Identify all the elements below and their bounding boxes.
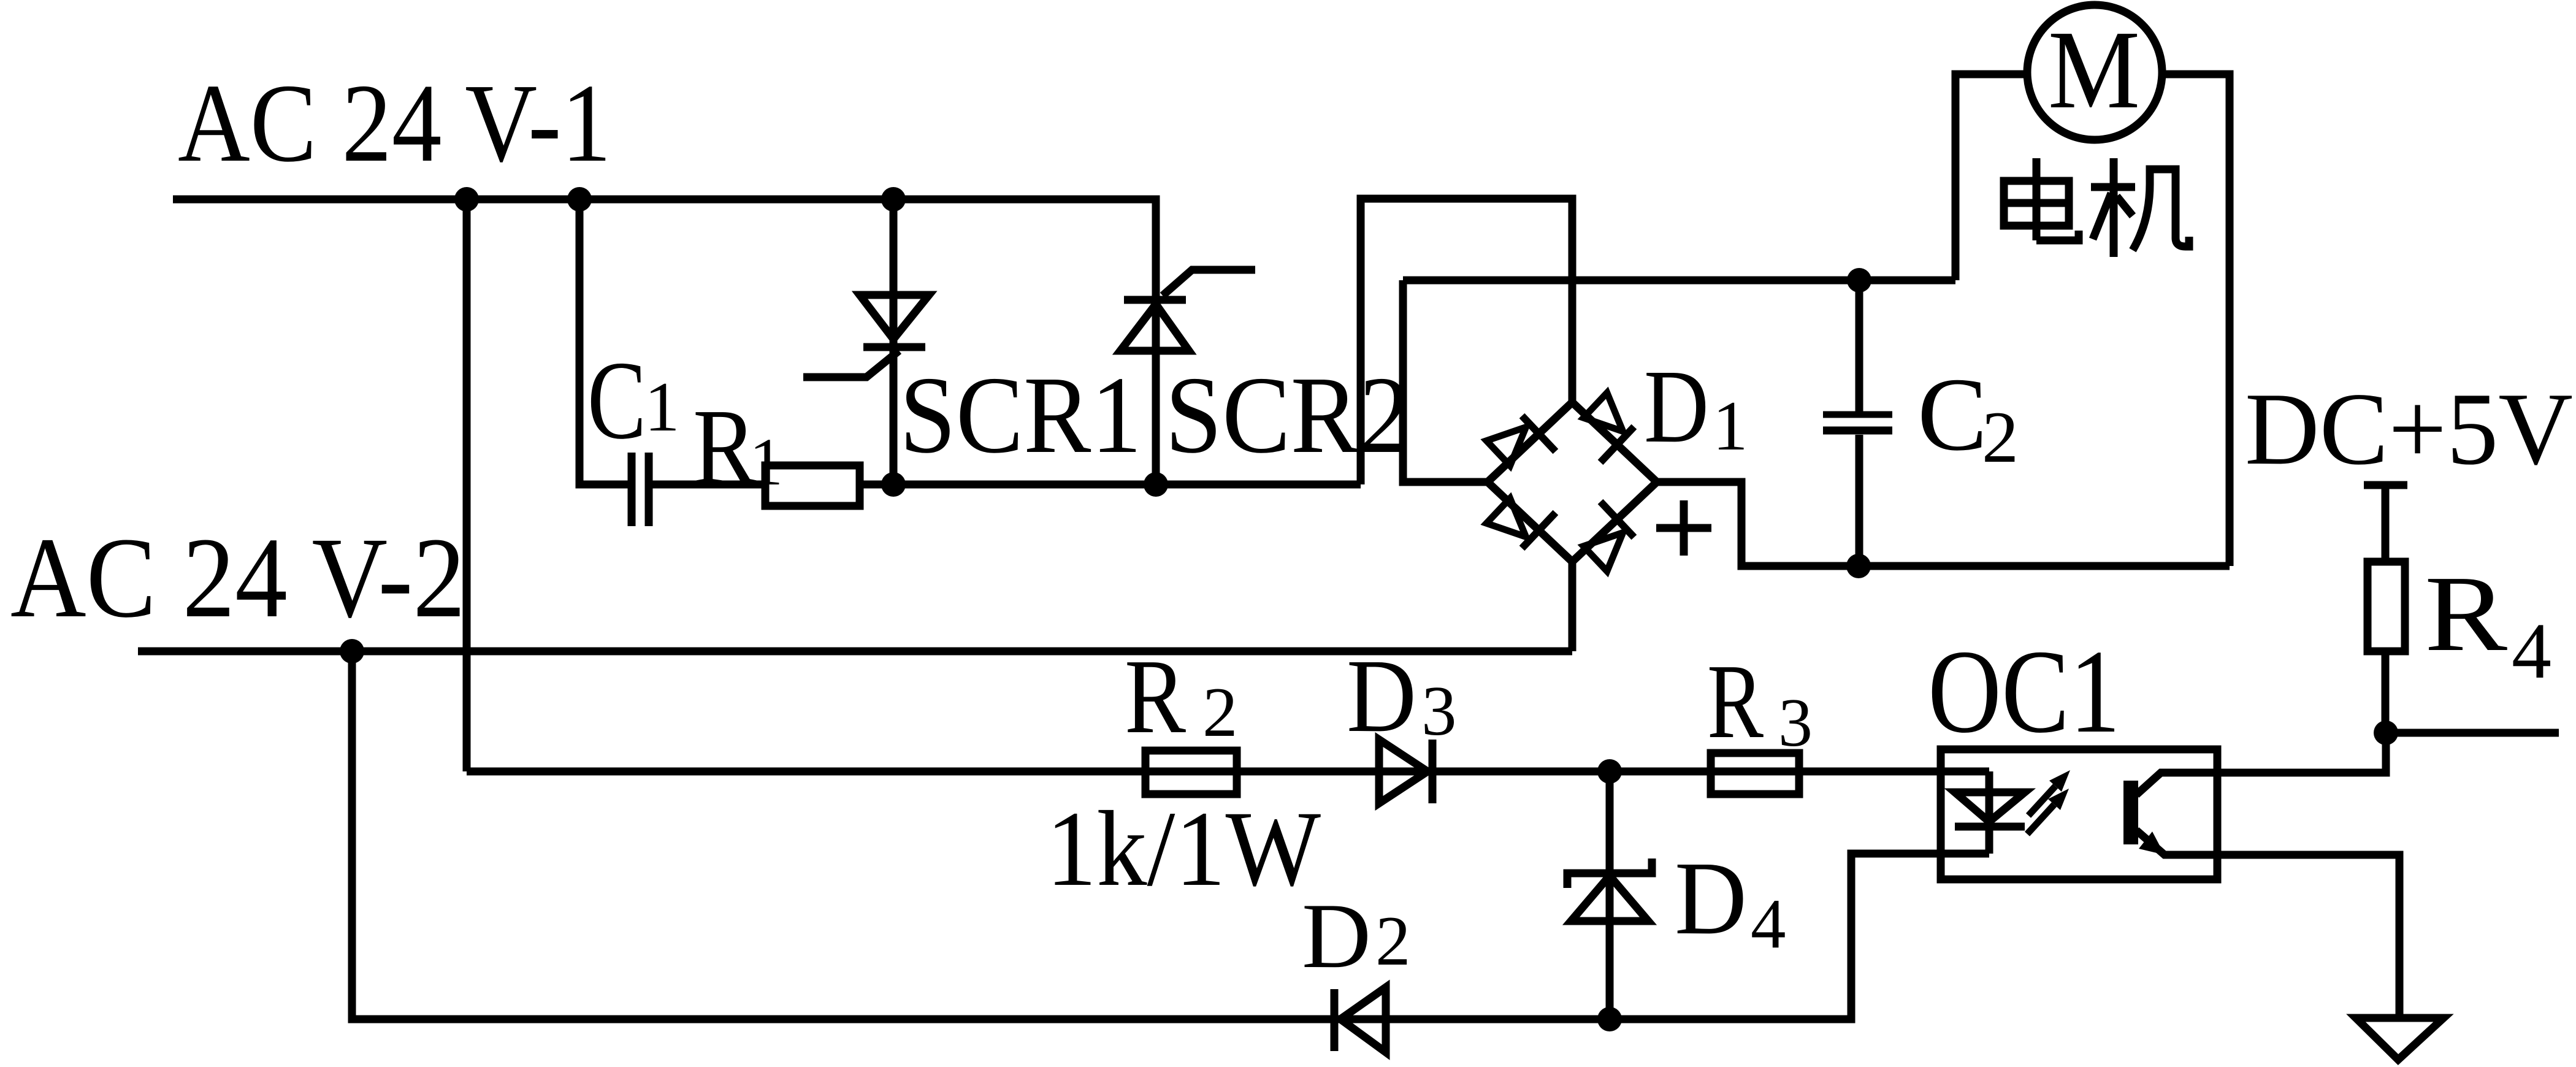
svg-text:R: R (1707, 642, 1764, 760)
svg-text:D: D (1347, 638, 1416, 754)
svg-text:1k/1W: 1k/1W (1046, 789, 1321, 909)
svg-text:C: C (1917, 356, 1987, 472)
svg-text:R: R (2425, 554, 2507, 674)
svg-text:R: R (693, 387, 757, 507)
svg-text:1: 1 (1713, 387, 1748, 465)
svg-text:4: 4 (1751, 885, 1786, 963)
svg-text:AC 24 V-2: AC 24 V-2 (10, 513, 465, 641)
svg-text:1: 1 (749, 424, 783, 499)
svg-text:R: R (1125, 637, 1186, 755)
svg-text:D: D (1302, 884, 1371, 987)
svg-text:C: C (587, 338, 646, 462)
svg-text:3: 3 (1778, 685, 1813, 761)
svg-text:4: 4 (2512, 607, 2551, 695)
svg-text:D: D (1644, 348, 1709, 464)
svg-text:3: 3 (1421, 672, 1457, 750)
svg-text:2: 2 (1202, 673, 1238, 751)
svg-text:SCR1: SCR1 (900, 354, 1142, 476)
svg-text:2: 2 (1982, 396, 2019, 478)
svg-text:M: M (2048, 7, 2140, 132)
svg-text:OC1: OC1 (1928, 625, 2120, 758)
svg-text:AC 24 V-1: AC 24 V-1 (178, 61, 611, 185)
svg-text:D: D (1675, 840, 1747, 956)
svg-text:1: 1 (644, 368, 680, 446)
svg-text:SCR2: SCR2 (1165, 354, 1410, 476)
svg-text:2: 2 (1375, 902, 1411, 980)
svg-text:DC+5V: DC+5V (2245, 371, 2573, 486)
